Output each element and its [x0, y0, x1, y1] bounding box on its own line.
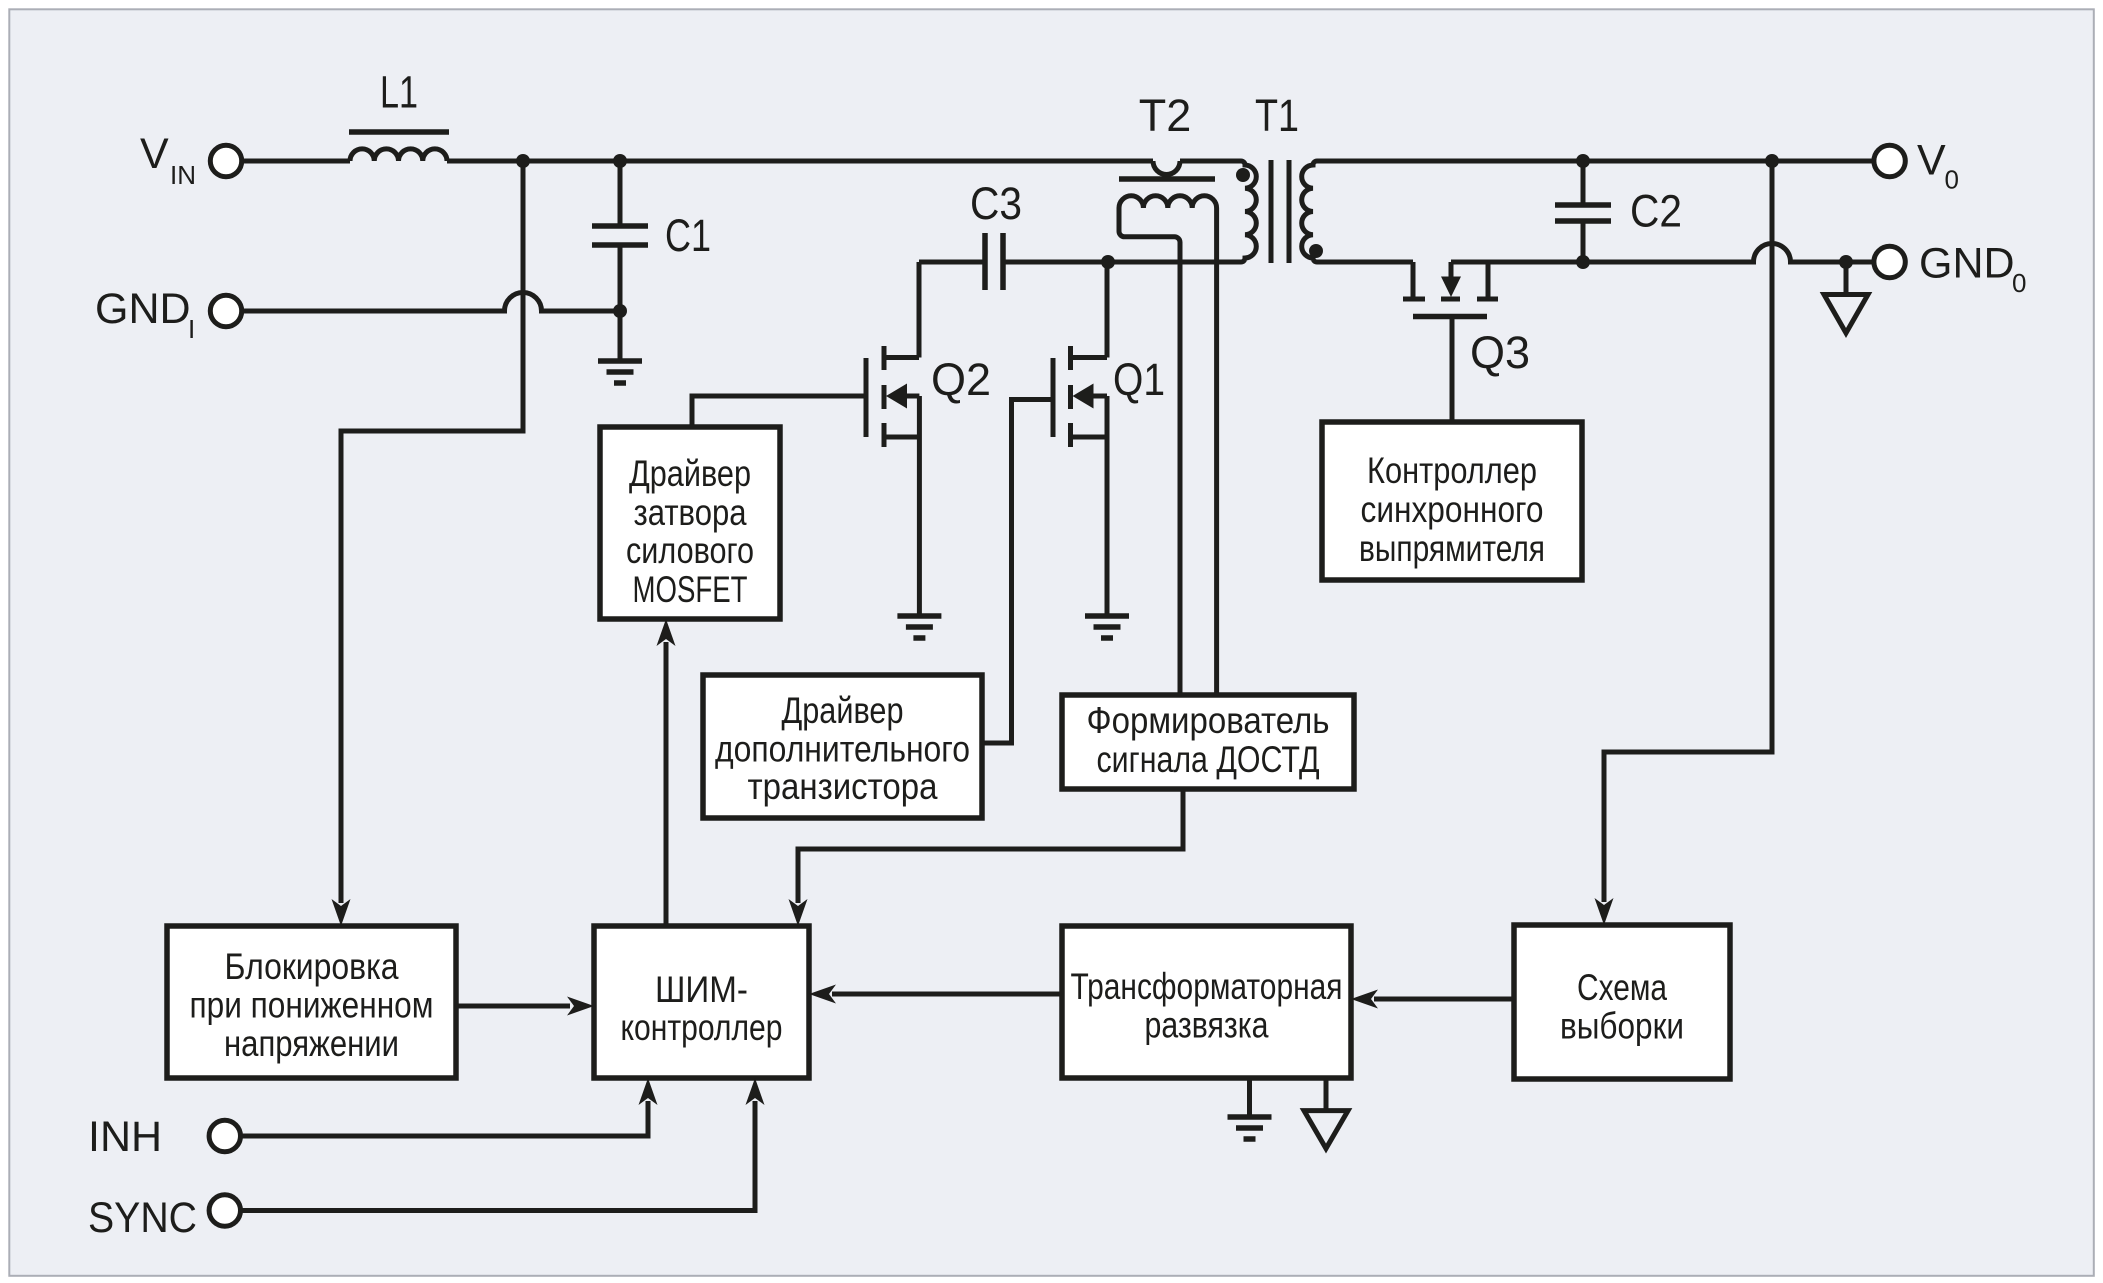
svg-text:сигнала ДОСТД: сигнала ДОСТД: [1097, 739, 1320, 780]
wire SYNC to PWM: [242, 1101, 756, 1211]
wire UVLO to PWM: [456, 1004, 570, 1009]
svg-text:Драйвер: Драйвер: [782, 690, 904, 731]
wire GND0 to chassis ground: [1844, 262, 1849, 295]
svg-text:Контроллер: Контроллер: [1367, 450, 1537, 491]
capacitor C2: [1555, 161, 1611, 262]
svg-text:выборки: выборки: [1560, 1006, 1684, 1047]
svg-text:выпрямителя: выпрямителя: [1359, 528, 1545, 569]
svg-text:Формирователь: Формирователь: [1087, 700, 1330, 741]
label VIN: [140, 130, 196, 190]
box sync rectifier controller: [1322, 422, 1582, 580]
box transformer isolation: [1062, 926, 1351, 1078]
svg-text:INH: INH: [88, 1113, 162, 1161]
inductor L1: [349, 132, 449, 161]
terminal SYNC: [209, 1195, 240, 1226]
svg-text:силового: силового: [626, 530, 754, 571]
arrowhead into transformer isolation right: [1351, 990, 1378, 1009]
wire C1 bottom to ground: [618, 311, 623, 361]
svg-text:0: 0: [1945, 165, 1959, 195]
ground under Q1: [1085, 616, 1129, 638]
wire T2 secondary left leg to DOSTD: [1119, 208, 1180, 697]
wire Q1 gate from aux driver box: [982, 400, 1053, 744]
node junction C3/Q1/T1: [1101, 255, 1115, 269]
transformer T1 primary winding: [1234, 161, 1256, 262]
transformer T2 secondary winding: [1119, 196, 1217, 208]
arrowhead into PWM top: [789, 899, 808, 926]
svg-text:I: I: [188, 314, 195, 344]
terminal GNDI: [210, 295, 241, 326]
box gate driver (Drayver zatvora): [600, 427, 780, 619]
wire transformer isolation to chassis ground: [1324, 1078, 1329, 1111]
arrowhead into UVLO box: [332, 899, 351, 926]
wire T1 primary bottom rail: [1108, 260, 1241, 265]
node junction C2 bottom: [1576, 255, 1590, 269]
arrowhead into sampling box: [1595, 898, 1614, 925]
transistor Q1: [1053, 262, 1107, 616]
svg-text:GND: GND: [95, 285, 191, 333]
label transformer isolation text: [1071, 966, 1343, 1046]
node junction V0 branch: [1765, 154, 1779, 168]
label GND0: [1919, 240, 2026, 299]
wire DOSTD to PWM: [798, 789, 1183, 903]
ground under Q2: [897, 616, 941, 638]
wire INH to PWM: [242, 1101, 649, 1136]
svg-text:Блокировка: Блокировка: [225, 946, 399, 987]
box DOSTD signal former: [1062, 695, 1354, 789]
node junction C2 top: [1576, 154, 1590, 168]
svg-text:T1: T1: [1255, 90, 1299, 141]
wire GNDI with hop over vertical: [243, 293, 621, 311]
svg-text:GND: GND: [1919, 240, 2015, 288]
wire PWM to gate driver: [664, 642, 669, 926]
chassis ground triangle at GND0: [1824, 295, 1868, 334]
svg-text:Q2: Q2: [931, 354, 991, 405]
svg-text:Трансформаторная: Трансформаторная: [1071, 966, 1343, 1007]
wire V0 branch to sampling circuit: [1604, 161, 1772, 902]
T1 primary polarity dot: [1236, 168, 1250, 182]
svg-text:C2: C2: [1630, 186, 1682, 237]
svg-text:Схема: Схема: [1577, 967, 1667, 1008]
ground under C1: [598, 361, 642, 383]
chassis ground triangle under transformer isolation: [1304, 1111, 1348, 1149]
wire sampling to transformer isolation: [1374, 997, 1514, 1002]
terminal INH: [209, 1120, 240, 1151]
T1 secondary polarity dot: [1309, 244, 1323, 258]
svg-text:0: 0: [2012, 268, 2026, 298]
svg-text:IN: IN: [170, 160, 196, 190]
label DOSTD box text: [1087, 700, 1330, 780]
svg-text:дополнительного: дополнительного: [715, 729, 970, 770]
wire Q2 gate to driver box: [692, 396, 866, 427]
svg-text:напряжении: напряжении: [224, 1023, 399, 1064]
wire from top rail down to UVLO: [341, 161, 523, 903]
svg-text:Q1: Q1: [1113, 354, 1165, 405]
svg-text:ШИМ-: ШИМ-: [655, 969, 748, 1010]
wire T1 secondary top rail to V0: [1324, 159, 1873, 164]
arrowhead into PWM left: [567, 997, 594, 1016]
transformer T1 secondary winding: [1302, 161, 1324, 262]
box UVLO: [167, 926, 456, 1078]
svg-text:SYNC: SYNC: [88, 1194, 197, 1242]
label aux transistor driver text: [715, 690, 970, 807]
terminal VIN: [210, 145, 241, 176]
svg-text:V: V: [1917, 137, 1946, 185]
label gate driver box text: [626, 453, 754, 610]
label UVLO text: [190, 946, 434, 1064]
svg-text:Драйвер: Драйвер: [629, 453, 751, 494]
ground under transformer isolation: [1228, 1117, 1272, 1139]
svg-text:T2: T2: [1139, 90, 1192, 141]
svg-text:V: V: [140, 130, 169, 178]
svg-text:C3: C3: [970, 178, 1022, 229]
wire T1 secondary bottom rail to Q3: [1324, 260, 1413, 265]
label GNDI: [95, 285, 195, 344]
label sampling circuit text: [1560, 967, 1684, 1047]
wire transformer isolation to PWM: [832, 992, 1062, 997]
transformer T2 primary bump: [1153, 161, 1180, 175]
transformer T2 core bar: [1119, 176, 1215, 182]
capacitor C1: [592, 161, 648, 311]
box PWM controller: [594, 926, 809, 1078]
node junction at x523 top rail: [516, 154, 530, 168]
svg-text:L1: L1: [380, 67, 418, 118]
node junction at C1 top: [613, 154, 627, 168]
svg-text:MOSFET: MOSFET: [633, 569, 748, 610]
terminal GND0: [1874, 246, 1905, 277]
svg-text:затвора: затвора: [634, 492, 747, 533]
label V0: [1917, 137, 1959, 195]
svg-text:контроллер: контроллер: [621, 1007, 783, 1048]
svg-text:C1: C1: [665, 210, 711, 261]
arrowhead into PWM right: [809, 985, 836, 1004]
box sampling circuit: [1514, 925, 1730, 1079]
transistor Q2: [866, 262, 919, 616]
node junction GND0 branch: [1839, 255, 1853, 269]
svg-text:Q3: Q3: [1470, 327, 1530, 378]
svg-text:при пониженном: при пониженном: [190, 985, 434, 1026]
wire top rail T2 to T1: [1180, 159, 1234, 164]
transistor Q3: [1403, 262, 1498, 422]
wire VIN to L1: [243, 159, 351, 164]
wire T2 secondary right leg to DOSTD: [1214, 208, 1219, 697]
arrowhead into gate driver box: [657, 619, 676, 646]
terminal V0: [1874, 145, 1905, 176]
wire transformer isolation to ground: [1247, 1078, 1252, 1117]
capacitor C3: [919, 233, 1108, 290]
T1 core lines: [1271, 160, 1289, 263]
arrowhead SYNC into PWM bottom: [746, 1078, 765, 1105]
arrowhead INH into PWM bottom: [639, 1078, 658, 1105]
label PWM controller text: [621, 969, 783, 1048]
svg-text:развязка: развязка: [1145, 1005, 1269, 1046]
wire L1 to T2 (top rail): [447, 159, 1153, 164]
svg-text:транзистора: транзистора: [748, 766, 938, 807]
svg-text:синхронного: синхронного: [1361, 489, 1544, 530]
wire GND0 rail with hop: [1583, 244, 1873, 262]
label sync rectifier controller text: [1359, 450, 1545, 569]
wire Q3 source rail to C2: [1451, 260, 1583, 265]
node junction C1 bottom / GND rail: [613, 304, 627, 318]
box aux transistor driver: [703, 675, 982, 818]
